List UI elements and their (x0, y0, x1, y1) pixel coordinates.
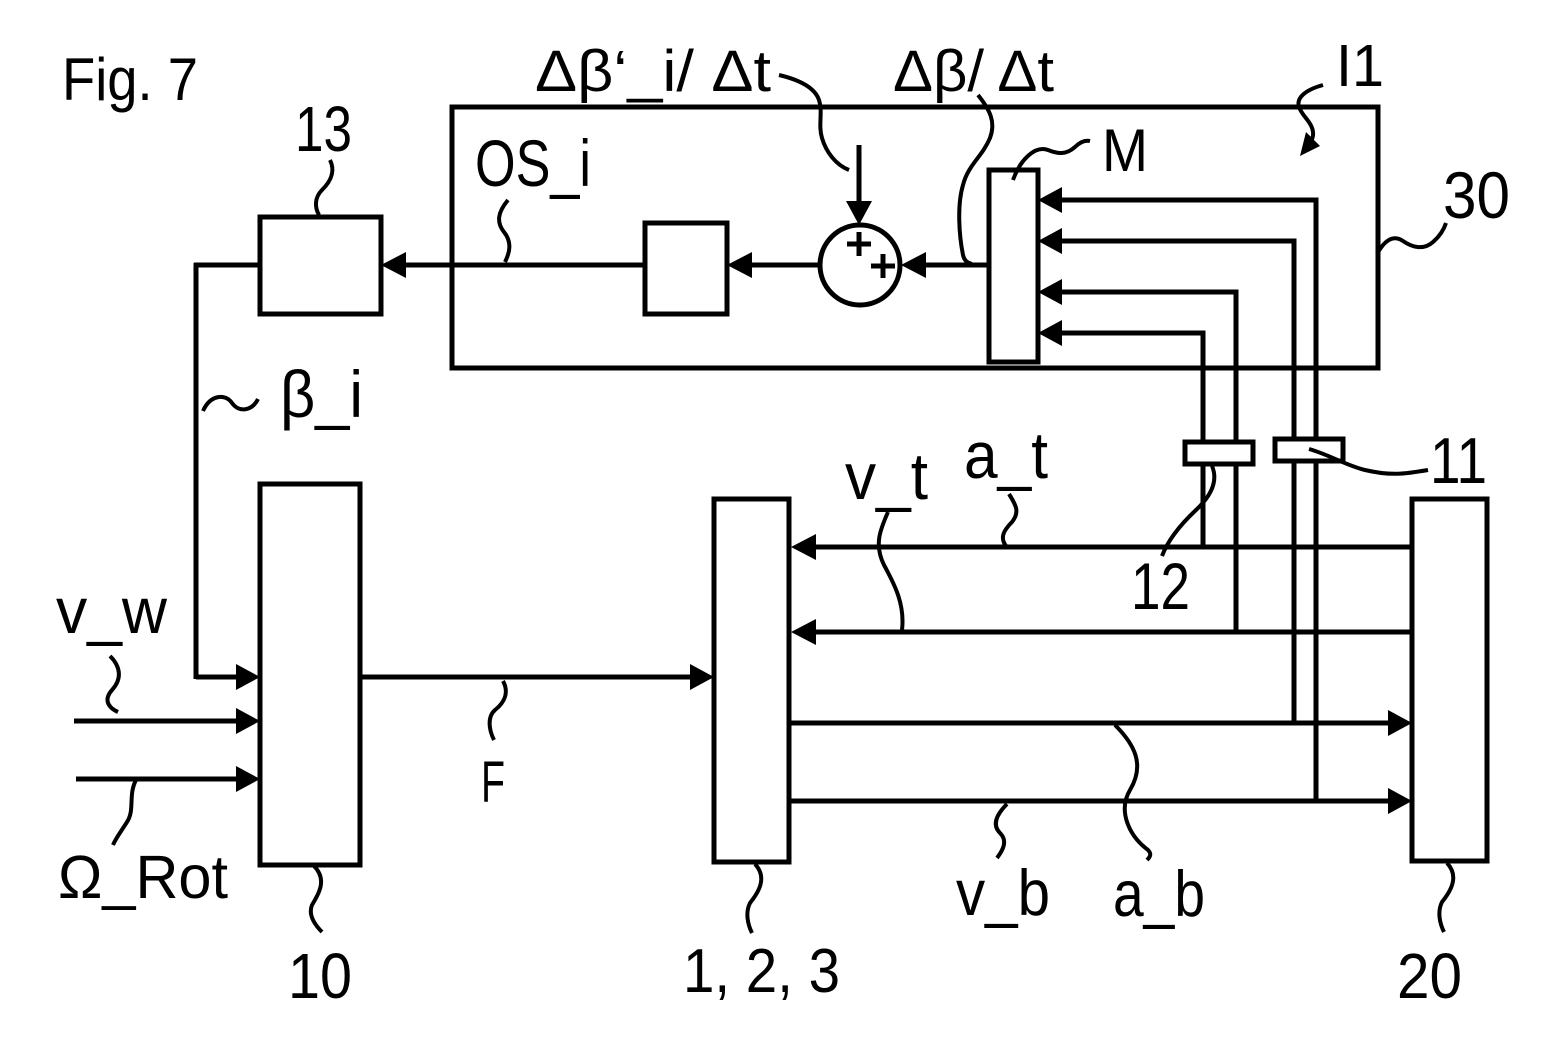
svg-text:10: 10 (288, 940, 352, 1012)
leader from 20 to block 20 (1439, 863, 1453, 932)
leader from F to its wire (490, 681, 506, 740)
wire v_t line from box 20 to box 1,2,3 (816, 630, 1412, 635)
delay square block (645, 223, 727, 314)
svg-text:v_b: v_b (956, 856, 1050, 929)
arrowhead M input 1 (1038, 187, 1062, 213)
arrowhead M input 2 (1038, 228, 1062, 254)
svg-text:12: 12 (1131, 549, 1190, 623)
arrowhead a_t into box 1,2,3 (791, 534, 816, 560)
leader from v_b to its wire (996, 804, 1007, 858)
wire v_b line from box 1,2,3 to box 20 (789, 799, 1388, 804)
block 1,2,3 (714, 499, 789, 862)
leader from v_w to its wire (107, 656, 118, 712)
leader from delta beta'_i/dt label to vertical wire (779, 75, 849, 170)
svg-text:v_t: v_t (845, 439, 928, 513)
wire v_w input line into box 10 (74, 719, 240, 724)
sensor box 11 (1275, 439, 1343, 461)
multiplexer block M (989, 170, 1038, 362)
svg-text:Δβ‘_i/ Δt: Δβ‘_i/ Δt (535, 39, 771, 104)
leader from 10 to block 10 (311, 866, 322, 932)
summing junction circle (820, 225, 900, 305)
arrowhead M input 4 (1038, 320, 1062, 346)
wire from box 13 left to beta_i corner (194, 263, 260, 268)
M input wire 2 from a_b line (1062, 241, 1294, 723)
svg-text:F: F (481, 750, 505, 815)
arrowhead of I1 leader (1300, 132, 1320, 156)
wire beta_i into box 10 (196, 675, 240, 680)
svg-text:30: 30 (1443, 158, 1510, 232)
leader from 30 to box 30 (1377, 223, 1446, 254)
wire delta beta'_i/dt vertical into summing circle (857, 145, 862, 205)
outer controller box 30 (I1) (452, 107, 1378, 368)
arrowhead into summing circle (901, 252, 926, 278)
svg-text:I1: I1 (1336, 33, 1384, 99)
wire a_b line from box 1,2,3 to box 20 (789, 721, 1388, 726)
wire from M to summing circle (926, 263, 989, 268)
leader from Omega_Rot to its wire (113, 780, 136, 845)
M input wire 3 from v_t line (1062, 292, 1236, 632)
block 13 (260, 217, 381, 314)
leader from M label to M block (1013, 141, 1090, 180)
svg-text:Fig. 7: Fig. 7 (62, 46, 198, 113)
arrowhead into delay square (727, 252, 752, 278)
svg-text:v_w: v_w (56, 574, 168, 647)
svg-text:a_b: a_b (1113, 857, 1205, 930)
block 10 (260, 484, 360, 865)
arrowhead Omega_Rot into box 10 (236, 766, 260, 792)
leader from a_t to its wire (1003, 494, 1017, 546)
arrowhead v_w into box 10 (236, 708, 260, 734)
svg-text:11: 11 (1430, 424, 1487, 497)
svg-text:13: 13 (295, 93, 352, 165)
wire from summing circle to delay square (752, 263, 820, 268)
svg-text:OS_i: OS_i (475, 126, 591, 200)
plus sign upper (847, 232, 871, 256)
arrowhead v_b into box 20 (1388, 788, 1412, 814)
plus sign lower (871, 254, 895, 278)
sensor box 12 (1185, 442, 1253, 464)
leader from 12 to box 12 (1162, 466, 1214, 556)
arrowhead F into box 1,2,3 (690, 664, 714, 690)
wire Omega_Rot input line into box 10 (76, 777, 240, 782)
leader from OS_i to wire (499, 200, 509, 262)
leader from delta beta/dt label to M output wire (959, 95, 992, 264)
svg-text:Ω_Rot: Ω_Rot (58, 843, 228, 911)
wire F from box 10 to box 1,2,3 (360, 675, 690, 680)
svg-text:1, 2, 3: 1, 2, 3 (683, 937, 840, 1006)
wire beta_i vertical from box 13 down to box 10 input (194, 263, 199, 679)
arrowhead v_t into box 1,2,3 (791, 619, 816, 645)
svg-text:Δβ/ Δt: Δβ/ Δt (893, 39, 1054, 104)
M input wire 1 from v_b line (1062, 200, 1316, 801)
arrowhead a_b into box 20 (1388, 710, 1412, 736)
wire OS_i from delay square to box 13 (406, 263, 645, 268)
arrowhead M input 3 (1038, 279, 1062, 305)
M input wire 4 from a_t line (1062, 333, 1203, 547)
block 20 (1412, 499, 1487, 861)
leader from 11 to box 11 (1309, 449, 1428, 474)
leader from v_t to its wire (879, 512, 903, 630)
leader tilde from beta_i wire to label (203, 397, 258, 411)
svg-text:M: M (1102, 117, 1148, 184)
leader from 13 to block 13 (316, 160, 332, 215)
wire a_t line from box 20 to box 1,2,3 (816, 545, 1412, 550)
arrowhead into box 10 top input (236, 664, 260, 690)
leader from a_b to its wire (1115, 725, 1150, 860)
leader from 1,2,3 to its block (747, 864, 761, 933)
arrowhead into box 13 (381, 252, 406, 278)
svg-text:β_i: β_i (280, 357, 363, 431)
svg-text:a_t: a_t (964, 418, 1048, 492)
svg-text:20: 20 (1397, 940, 1462, 1012)
arrowhead down into summing circle (846, 201, 872, 225)
leader from I1 with arrow into box 30 (1298, 85, 1323, 150)
